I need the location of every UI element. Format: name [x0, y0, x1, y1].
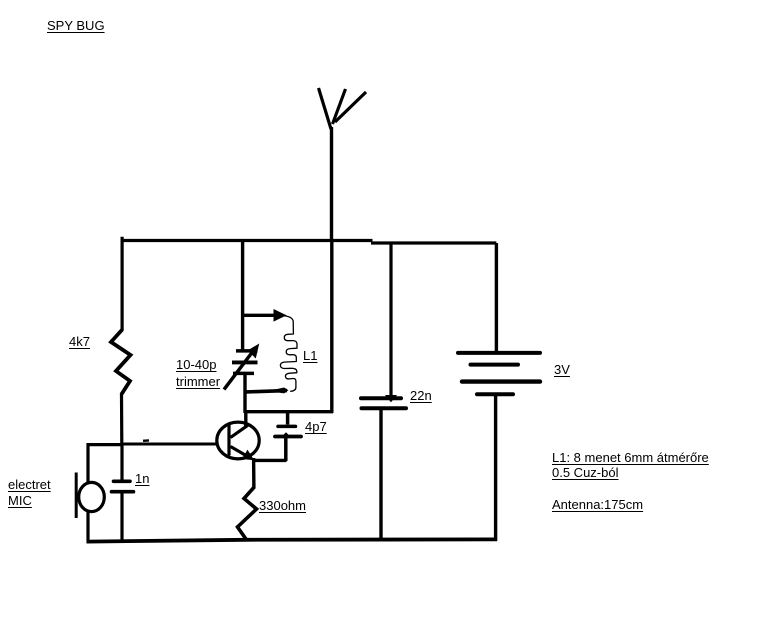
label 10-40p (trimmer value line 1)	[176, 357, 216, 372]
wire battery top vertical	[495, 243, 498, 351]
label 330ohm (resistor R2 value)	[259, 498, 306, 513]
resistor R1 4k7	[111, 330, 131, 395]
antenna	[319, 88, 367, 240]
microphone electret MIC	[76, 473, 104, 519]
label L1 (inductor)	[303, 348, 317, 363]
wire base horizontal (junction to transistor base)	[121, 443, 219, 446]
label 3V (battery value)	[554, 362, 570, 377]
label 4k7 (resistor R1 value)	[69, 334, 90, 349]
wire arrow from L1 bottom to trimmer foot	[246, 388, 288, 393]
wire emitter vertical (down to 330ohm)	[252, 458, 256, 489]
wire left branch upper (top rail down to 4k7)	[120, 237, 123, 331]
wire trimmer lower vertical (to collector junction)	[243, 374, 246, 414]
wire top rail right segment	[371, 241, 496, 244]
label electret (microphone line 1)	[8, 477, 51, 492]
wire arrow to L1 top	[243, 310, 286, 321]
wire 1n lower stub	[120, 494, 123, 542]
wire nub above base wire	[143, 439, 149, 442]
title SPY BUG	[47, 18, 105, 33]
wire antenna feed vertical (top rail down to collector rail)	[330, 240, 333, 413]
wire 22n bottom vertical	[379, 410, 382, 541]
capacitor C2 4p7	[275, 411, 301, 461]
inductor L1	[280, 316, 297, 392]
wire mic bottom	[86, 511, 89, 542]
wire battery bottom vertical	[494, 396, 497, 541]
label 4p7 (capacitor C2 value)	[305, 419, 327, 434]
wire trimmer branch vertical (top rail to trimmer)	[241, 240, 244, 351]
wire emitter horizontal (to 4p7 bottom)	[253, 459, 287, 462]
resistor R2 330ohm	[238, 487, 257, 541]
capacitor C3 22n	[361, 398, 406, 408]
note L1 winding line 1	[552, 450, 709, 465]
label MIC (microphone line 2)	[8, 493, 32, 508]
label trimmer (trimmer value line 2)	[176, 374, 220, 389]
wire mic top (mic to base junction)	[88, 445, 122, 483]
wire 22n branch vertical (top rail to 22n)	[386, 243, 396, 402]
wire left branch lower (4k7 down to base junction)	[120, 394, 124, 446]
wire collector horizontal (junction to antenna foot)	[245, 410, 333, 413]
label 1n (capacitor C1 value)	[135, 471, 149, 486]
capacitor C1 1n	[112, 481, 134, 491]
battery BT1 3V	[458, 353, 540, 394]
label 22n (capacitor C3 value)	[410, 388, 432, 403]
note antenna length	[552, 497, 643, 512]
note L1 winding line 2	[552, 465, 618, 480]
trimmer capacitor 10-40p	[224, 345, 259, 390]
wire top rail left segment	[121, 239, 373, 242]
wire 1n upper stub	[120, 444, 123, 480]
wire bottom rail	[87, 539, 498, 541]
transistor Q1	[217, 412, 259, 460]
